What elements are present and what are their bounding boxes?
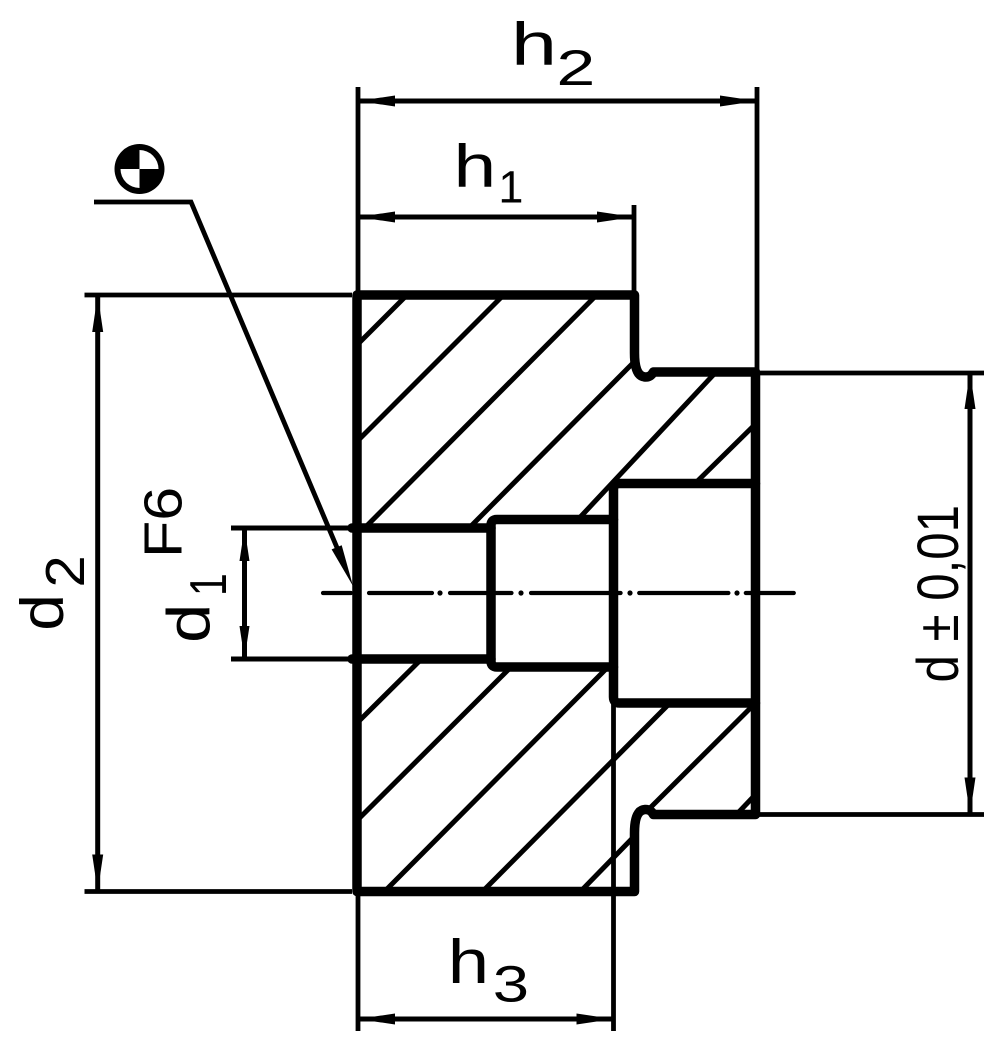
svg-text:h: h — [511, 11, 557, 77]
svg-text:d: d — [9, 594, 76, 631]
svg-text:1: 1 — [498, 162, 523, 213]
svg-text:h: h — [454, 133, 497, 200]
svg-text:2: 2 — [556, 40, 595, 96]
svg-text:d ± 0,01: d ± 0,01 — [906, 505, 971, 683]
svg-text:2: 2 — [34, 555, 95, 587]
svg-text:d: d — [155, 604, 222, 643]
svg-text:1: 1 — [179, 573, 237, 596]
svg-text:F6: F6 — [134, 487, 194, 558]
svg-text:3: 3 — [493, 956, 529, 1013]
svg-text:h: h — [448, 927, 489, 997]
